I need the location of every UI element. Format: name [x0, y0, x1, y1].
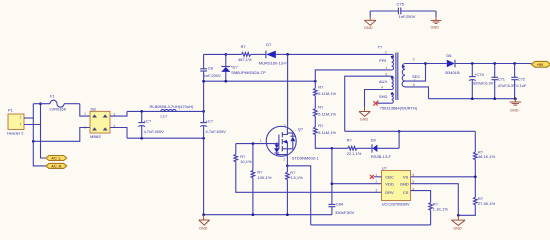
wire drain into mosfet handled; source down — [286, 156, 288, 166]
capacitor C6 bulk 4.7uF — [200, 111, 226, 138]
node junction — [314, 80, 317, 83]
svg-text:U?: U? — [382, 166, 388, 171]
svg-text:CBC: CBC — [385, 175, 394, 180]
svg-text:1: 1 — [84, 112, 86, 116]
diode D6 B340LB — [445, 53, 460, 75]
svg-text:2: 2 — [84, 125, 86, 129]
svg-text:SHD: SHD — [379, 94, 388, 99]
transformer aux winding — [392, 76, 394, 89]
node junction VS — [474, 175, 477, 178]
svg-text:C72: C72 — [518, 76, 526, 81]
svg-text:R7: R7 — [241, 44, 247, 49]
IC U? UCC28700DBV — [375, 166, 414, 207]
node junction — [202, 110, 205, 113]
svg-text:1nF,250V: 1nF,250V — [399, 14, 416, 19]
svg-text:+C?: +C? — [144, 118, 152, 123]
node junction — [39, 102, 42, 105]
wire primary pin1 to bulk+ — [315, 70, 391, 88]
svg-text:C71: C71 — [498, 76, 506, 81]
wire clamp bottom rail to bulk+ — [204, 80, 316, 82]
wire aux pin5 to sense — [345, 76, 392, 131]
no-connect X on CBC — [370, 175, 374, 179]
wire +5V rail — [455, 63, 531, 65]
svg-text:1.1K,1%: 1.1K,1% — [433, 206, 449, 211]
node junction — [286, 213, 289, 216]
svg-text:1: 1 — [260, 139, 262, 143]
wire clamp line to transformer pin2 — [288, 53, 392, 55]
svg-text:2: 2 — [20, 116, 22, 120]
svg-text:CS: CS — [403, 190, 409, 195]
node junction — [286, 53, 289, 56]
svg-text:R?: R? — [318, 84, 324, 89]
wire sec 9-7 bracket — [405, 64, 426, 82]
node junction — [202, 137, 205, 140]
node junction source CS tap — [286, 164, 289, 167]
wire from sense line down to divider — [474, 131, 476, 152]
wire P1 pin1 — [24, 124, 41, 126]
svg-text:C8: C8 — [208, 66, 214, 71]
fuse F1 — [33, 94, 80, 112]
node junction — [140, 137, 143, 140]
ground secondary — [510, 99, 522, 105]
node junction — [398, 130, 401, 133]
winding dot aux — [391, 76, 393, 78]
svg-text:AUX: AUX — [379, 79, 388, 84]
wire VS pin6 — [411, 176, 476, 178]
bridge rectifier D8 — [84, 106, 115, 139]
inductor L1 — [150, 104, 194, 119]
node junction — [252, 213, 255, 216]
wire secondary top to D6 — [426, 63, 447, 65]
resistor R? 10 gate — [234, 144, 252, 165]
wire sec pin9 — [405, 63, 426, 65]
wire aux sense line — [345, 130, 476, 132]
svg-text:VDD: VDD — [385, 182, 394, 187]
svg-text:DRV: DRV — [385, 190, 394, 195]
svg-text:4.7uF,400V: 4.7uF,400V — [206, 129, 227, 134]
svg-text:10,1%: 10,1% — [240, 159, 252, 164]
svg-text:L1?: L1? — [161, 114, 168, 119]
svg-text:1: 1 — [20, 122, 22, 126]
wire to bridge pin2 — [33, 128, 90, 142]
svg-text:GND: GND — [431, 26, 440, 30]
svg-text:D6: D6 — [446, 53, 452, 58]
node junction IC ground — [457, 214, 460, 217]
svg-text:1.5,1%: 1.5,1% — [290, 175, 303, 180]
wire DC- rail — [127, 137, 204, 139]
node junction — [331, 147, 334, 150]
ground transformer — [359, 107, 370, 116]
wire aux pin4 to ground — [365, 90, 392, 108]
svg-text:4: 4 — [381, 85, 383, 89]
wire chain bottom to VDD node — [315, 135, 332, 149]
diode D7 MURS160 — [259, 42, 288, 66]
capacitor C72 0.1uF — [511, 64, 527, 99]
node junction — [493, 62, 496, 65]
wire gate line — [236, 143, 279, 145]
wire D8 pin4 down — [110, 128, 127, 139]
wire — [314, 116, 316, 127]
wire — [357, 147, 372, 149]
svg-text:P1: P1 — [8, 108, 14, 113]
svg-text:3: 3 — [284, 123, 286, 127]
net label +5V — [531, 61, 550, 67]
wire CS tap to lower rail — [287, 166, 310, 225]
svg-text:R?: R? — [257, 169, 263, 174]
node junction — [32, 140, 35, 143]
svg-text:D7: D7 — [266, 42, 272, 47]
svg-text:487,1%: 487,1% — [238, 57, 252, 62]
node junction — [471, 97, 474, 100]
svg-text:R?: R? — [318, 105, 324, 110]
svg-text:GND: GND — [400, 182, 409, 187]
winding dot secondary — [403, 65, 405, 67]
capacitor C70 820uF — [469, 64, 494, 99]
node junction — [202, 80, 205, 83]
svg-text:LVR016K: LVR016K — [50, 106, 67, 111]
svg-text:GND: GND — [510, 109, 519, 113]
wire CS pin4 — [411, 191, 431, 203]
transformer T? 750313684 — [377, 45, 418, 111]
connector P1 — [7, 108, 24, 136]
no-connect X on pin3 — [373, 101, 377, 105]
resistor R? 5.11M first — [314, 84, 337, 96]
svg-text:22.1,1%: 22.1,1% — [347, 151, 362, 156]
wire gate R bottom to DRV — [236, 162, 382, 193]
ground IC — [452, 215, 466, 225]
svg-text:27.4K,1%: 27.4K,1% — [478, 201, 496, 206]
wire VDD line to IC — [332, 183, 382, 185]
transformer core — [396, 53, 398, 101]
svg-text:5.11M,1%: 5.11M,1% — [318, 130, 336, 135]
winding dot shield — [391, 93, 393, 95]
node junction — [202, 213, 205, 216]
mosfet Q? STD3NM60Z — [260, 123, 320, 161]
wire sec pin6 — [405, 87, 429, 99]
wire primary ground rail — [204, 214, 333, 216]
svg-text:9: 9 — [413, 58, 415, 62]
wire D8 pin3 up to DC+ rail — [110, 111, 127, 116]
svg-text:GND: GND — [199, 226, 208, 230]
winding dot primary — [391, 56, 393, 58]
svg-text:+5V: +5V — [537, 63, 544, 67]
svg-text:PRI: PRI — [379, 58, 386, 63]
svg-text:MURS160-13-F: MURS160-13-F — [259, 60, 288, 65]
resistor R? 5.11M second — [314, 105, 337, 117]
ground primary — [199, 215, 210, 225]
svg-text:T?: T? — [378, 45, 383, 50]
TVS diode D? SMBJP6KE82A — [221, 54, 266, 81]
wire — [314, 96, 316, 109]
ground — [431, 17, 442, 23]
node junction — [224, 53, 227, 56]
wire — [369, 11, 371, 17]
svg-text:GND: GND — [360, 118, 369, 122]
node junction — [424, 62, 427, 65]
svg-text:STD3NM60Z-1: STD3NM60Z-1 — [292, 156, 320, 161]
capacitor C8 1nF,200V — [200, 66, 221, 112]
diode D9 RS2B — [371, 137, 400, 159]
svg-text:C75: C75 — [397, 2, 405, 7]
svg-text:C84: C84 — [336, 202, 344, 207]
svg-text:5.11M,1%: 5.11M,1% — [318, 111, 336, 116]
wire lower CS rail — [311, 224, 431, 226]
net label AC_L — [46, 156, 67, 161]
svg-text:D9: D9 — [371, 137, 377, 142]
wire P1 pin2 — [24, 117, 33, 119]
svg-text:2: 2 — [385, 50, 387, 54]
svg-text:SMBJP6KE82A-TP: SMBJP6KE82A-TP — [231, 70, 266, 75]
svg-text:B340LB: B340LB — [445, 70, 460, 75]
transformer secondary winding — [402, 64, 405, 87]
wire DC+ rail — [127, 110, 204, 112]
resistor R? 27.4K — [458, 196, 495, 215]
wire clamp vertical above C8 — [203, 54, 205, 68]
svg-text:330nF,50V: 330nF,50V — [335, 210, 354, 215]
node junction VDD tee — [331, 182, 334, 185]
secondary pin labels — [412, 58, 420, 87]
svg-text:RLB0608-4.7UH(470uH): RLB0608-4.7UH(470uH) — [150, 104, 194, 109]
ground — [364, 17, 376, 25]
svg-text:820uF,6.3V: 820uF,6.3V — [473, 80, 494, 85]
svg-text:Header 2: Header 2 — [7, 131, 24, 136]
transformer shield winding — [392, 93, 394, 104]
wire AC_L vertical — [41, 104, 46, 158]
node junction — [514, 97, 517, 100]
svg-text:Q?: Q? — [298, 126, 304, 131]
resistor R? 1.5 sense — [286, 166, 303, 215]
wire CBC pin1 stub — [374, 176, 382, 178]
svg-text:5.11M,1%: 5.11M,1% — [318, 91, 336, 96]
node junction — [252, 142, 255, 145]
resistor R? 1.1K CS — [429, 201, 449, 225]
capacitor C84 330nF VDD — [328, 148, 354, 215]
node junction — [224, 80, 227, 83]
svg-text:+C70: +C70 — [474, 72, 484, 77]
svg-text:AC_L: AC_L — [51, 157, 61, 161]
svg-text:1nF,200V: 1nF,200V — [204, 73, 221, 78]
wire D9 up to aux sense line — [398, 131, 400, 148]
wire — [435, 11, 437, 17]
node junction — [471, 62, 474, 65]
svg-text:3: 3 — [375, 189, 377, 193]
svg-text:0.1uF: 0.1uF — [516, 83, 527, 88]
svg-text:+C?: +C? — [206, 118, 214, 123]
svg-text:UCC28700DBV: UCC28700DBV — [382, 201, 410, 206]
wire clamp top line — [204, 53, 242, 55]
svg-text:4.7uF,400V: 4.7uF,400V — [144, 129, 165, 134]
resistor R? 10K — [251, 144, 272, 215]
svg-text:RS2B-13-F: RS2B-13-F — [371, 154, 392, 159]
wire AC_N vertical — [33, 104, 46, 166]
resistor R7 487 — [238, 44, 266, 62]
node junction — [513, 62, 516, 65]
wire drain vertical — [287, 54, 289, 127]
svg-text:R?: R? — [347, 137, 353, 142]
svg-text:47uF,6.3V: 47uF,6.3V — [498, 83, 516, 88]
wire shield pin3 stub — [375, 102, 391, 104]
capacitor C7 bulk 4.7uF — [138, 111, 164, 138]
capacitor C75 — [370, 2, 436, 19]
svg-text:MB6S: MB6S — [90, 134, 101, 139]
svg-text:*D?: *D? — [231, 65, 238, 70]
svg-text:2: 2 — [283, 157, 285, 161]
svg-text:2: 2 — [375, 180, 377, 184]
svg-text:GND: GND — [364, 26, 373, 30]
wire bulk minus down to ground rail — [203, 138, 205, 215]
svg-text:750313684(WURTH): 750313684(WURTH) — [380, 105, 418, 110]
wire GND pin5 — [411, 184, 459, 216]
resistor R? 48.1K — [474, 149, 496, 197]
svg-text:AC_N: AC_N — [51, 165, 61, 169]
wire secondary bottom rail — [429, 98, 516, 100]
resistor R? 22.1 — [332, 137, 362, 156]
transformer primary winding — [392, 54, 394, 70]
resistor R? 5.11M third — [314, 123, 337, 135]
svg-text:10K,1%: 10K,1% — [257, 175, 271, 180]
svg-text:GND: GND — [453, 227, 462, 231]
node junction — [140, 110, 143, 113]
svg-text:F1: F1 — [50, 94, 55, 99]
svg-text:48.1K,1%: 48.1K,1% — [478, 154, 496, 159]
capacitor C71 47uF — [491, 64, 516, 99]
svg-text:D8: D8 — [91, 106, 97, 111]
node junction — [493, 97, 496, 100]
net label AC_N — [46, 163, 67, 168]
svg-text:VS: VS — [403, 175, 409, 180]
svg-text:R?: R? — [318, 123, 324, 128]
wire to bridge pin1 — [80, 104, 90, 116]
